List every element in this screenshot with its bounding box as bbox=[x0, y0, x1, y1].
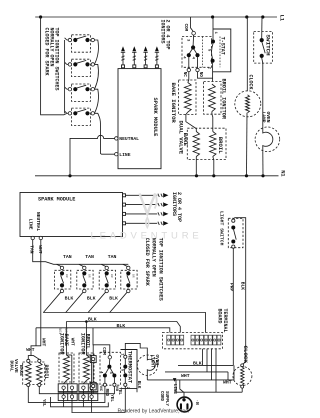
watermark leadventure bbox=[90, 194, 202, 242]
wire PRP from light switch bbox=[232, 248, 234, 365]
wire board drop 1 bbox=[202, 349, 204, 366]
svg-text:LINE: LINE bbox=[119, 152, 130, 158]
svg-text:COM: COM bbox=[183, 24, 187, 32]
clock motor M1 (top) bbox=[235, 91, 261, 117]
label WHT (igniter feed) bbox=[69, 338, 74, 346]
wire L1 to clock bbox=[246, 17, 248, 91]
label OVEN LIGHT bbox=[150, 355, 159, 369]
wire bus C to thermostat COM bbox=[93, 328, 110, 356]
svg-text:N1: N1 bbox=[280, 170, 286, 176]
svg-text:WHT: WHT bbox=[37, 245, 43, 254]
label OVEN LAMP (top) bbox=[261, 112, 271, 123]
svg-text:·N: ·N bbox=[194, 400, 199, 406]
svg-text:TAN: TAN bbox=[85, 254, 94, 260]
igniter electrode output 1 (bottom module) bbox=[123, 193, 169, 197]
wire WHT to valve bbox=[28, 351, 39, 359]
oven light DS2 bbox=[137, 355, 157, 380]
svg-text:WHT: WHT bbox=[223, 380, 232, 386]
svg-text:L1: L1 bbox=[278, 15, 284, 21]
terminal board TB1 bbox=[163, 333, 223, 349]
wire L1 rail bbox=[35, 16, 277, 18]
svg-text:BLK: BLK bbox=[117, 323, 126, 329]
top ignition switch S5 (bottom) bbox=[55, 254, 72, 293]
svg-text:BROIL: BROIL bbox=[43, 365, 49, 380]
oven switch SW1 (top) bbox=[254, 32, 273, 64]
svg-text:BLK: BLK bbox=[65, 295, 74, 301]
igniter electrode output 1 (top module) bbox=[121, 46, 125, 68]
wire bake igniter feed bbox=[65, 322, 67, 356]
wire TAN from module bbox=[33, 240, 129, 265]
label BLK wire 3 bbox=[109, 295, 118, 301]
wire broil igniter feed bbox=[85, 320, 88, 355]
contact COM (top t-stat) bbox=[192, 31, 196, 35]
t-stat contact links bbox=[187, 49, 200, 57]
label T-STAT bbox=[220, 37, 226, 55]
svg-text:TOP IGNITION SWITCHES: TOP IGNITION SWITCHES bbox=[157, 238, 163, 301]
wire t-stat chain top to oven light bbox=[125, 343, 147, 355]
top ignition switch S3 bbox=[65, 84, 99, 113]
contact COM (bottom t-stat) bbox=[108, 356, 111, 359]
wire NEUTRAL from N rail bbox=[70, 135, 115, 176]
wire clock to neutral bbox=[241, 388, 243, 392]
thermostat dashed box (bottom) bbox=[100, 352, 121, 385]
label CLOCK (bottom) bbox=[242, 346, 249, 364]
spark module U2 (bottom) bbox=[20, 193, 123, 237]
bake igniter R3 (bottom) bbox=[59, 353, 74, 384]
svg-text:BR: BR bbox=[110, 274, 113, 278]
label BLK wire 2 bbox=[87, 295, 96, 301]
svg-text:T-STAT: T-STAT bbox=[220, 37, 226, 55]
svg-text:NO: NO bbox=[198, 72, 202, 78]
svg-text:CLOSED FOR SPARK: CLOSED FOR SPARK bbox=[44, 28, 50, 76]
junction dots on L1 rail bbox=[39, 15, 264, 18]
oven lamp DS1 (top) bbox=[255, 127, 280, 152]
bake valve coil (top) bbox=[182, 132, 199, 157]
label SUPPLY CORD bbox=[159, 391, 168, 407]
svg-text:LAMP: LAMP bbox=[261, 112, 267, 123]
label BLK (light switch riser) bbox=[240, 282, 246, 291]
top ignition switch S4 bbox=[65, 108, 95, 125]
light switch SW2 bbox=[228, 218, 243, 248]
wire NO to broil igniter bbox=[198, 72, 213, 79]
wire broil valve to N bbox=[213, 157, 214, 176]
t-stat links (bottom) bbox=[103, 368, 117, 377]
contact NC (bottom t-stat) bbox=[98, 377, 106, 391]
top ignition switch S6 (bottom) bbox=[77, 254, 94, 293]
wire bottom loop 1 bbox=[51, 397, 109, 407]
svg-text:BR: BR bbox=[88, 274, 91, 278]
thermostat body box (bottom) bbox=[121, 350, 138, 389]
top ignition switch S7 (bottom) bbox=[99, 254, 116, 293]
label WHT (valve) bbox=[26, 347, 35, 353]
label WHT (lower) bbox=[40, 338, 46, 347]
wire clock bottom run bbox=[176, 380, 242, 392]
svg-text:WHT: WHT bbox=[40, 338, 46, 347]
svg-text:BAKE: BAKE bbox=[182, 133, 189, 147]
label WHT (module wire) bbox=[37, 245, 43, 254]
wire net WHT horizontal bbox=[165, 372, 228, 380]
label BLK (net) bbox=[193, 360, 202, 366]
dual valve box (bottom) bbox=[23, 362, 45, 384]
label DUAL VALVE (bottom) bbox=[9, 359, 19, 373]
label BAKE IGNITOR (top) bbox=[170, 83, 177, 124]
label L1 bbox=[278, 15, 284, 21]
spark module U1 (top) bbox=[118, 69, 161, 169]
svg-text:Rendered by LeadVenture, Inc.: Rendered by LeadVenture, Inc. bbox=[118, 409, 190, 415]
svg-text:BAKE IGNITOR: BAKE IGNITOR bbox=[170, 83, 177, 124]
thermostat T-STAT body box bbox=[213, 29, 231, 72]
svg-text:NEUTRAL: NEUTRAL bbox=[119, 136, 139, 142]
svg-text:LINE: LINE bbox=[28, 219, 34, 230]
svg-text:SPARK MODULE: SPARK MODULE bbox=[152, 98, 158, 138]
svg-text:NC: NC bbox=[98, 386, 102, 391]
igniter electrode output 4 (bottom module) bbox=[123, 221, 169, 225]
t-stat oven contact chain bbox=[211, 17, 215, 82]
wire switch chain to LINE bbox=[95, 113, 115, 154]
bake valve coil (bottom) bbox=[18, 359, 31, 386]
label RED bbox=[104, 389, 108, 397]
wire bus C to terminal board bbox=[36, 328, 170, 333]
contact NO (bottom t-stat) bbox=[113, 377, 118, 391]
wire net BLK horizontal bbox=[178, 364, 233, 366]
t-stat arm from COM bbox=[191, 35, 195, 50]
wire bottom loop 2 bbox=[72, 412, 126, 414]
wire oven lamp to N bbox=[262, 152, 264, 176]
top ignition switch S2 bbox=[65, 59, 99, 88]
svg-text:LIGHT SWITCH: LIGHT SWITCH bbox=[219, 211, 225, 246]
wire oven switch to lamp bbox=[262, 58, 263, 127]
svg-text:YEL: YEL bbox=[117, 387, 121, 395]
label LIGHT SWITCH bbox=[219, 211, 225, 246]
igniter electrode output 3 (top module) bbox=[143, 46, 147, 68]
t-stat arm (bottom) bbox=[107, 359, 111, 369]
label top ignition switches text block (bottom) bbox=[144, 238, 163, 301]
label WHT (clock run) bbox=[223, 380, 232, 386]
label CLOCK (top) bbox=[248, 75, 254, 90]
label TAN (module wire) bbox=[29, 245, 35, 254]
igniter electrode output 4 (top module) bbox=[155, 46, 159, 68]
svg-text:BLK: BLK bbox=[136, 381, 140, 389]
top ignition switch S8 (bottom) bbox=[121, 264, 137, 292]
label LINE/NEUTRAL (bottom module) bbox=[28, 212, 41, 232]
svg-text:BR: BR bbox=[65, 274, 68, 278]
svg-text:BOARD: BOARD bbox=[217, 309, 223, 324]
svg-text:BR: BR bbox=[132, 274, 135, 278]
svg-text:IGNITORS: IGNITORS bbox=[160, 20, 166, 44]
wire WHT neutral run bbox=[31, 240, 41, 352]
label SPARK MODULE (top) bbox=[152, 98, 158, 138]
svg-text:BROIL IGNITOR: BROIL IGNITOR bbox=[221, 79, 227, 120]
wire board drop 3 bbox=[211, 349, 213, 380]
top ignition switch S1 bbox=[65, 35, 99, 64]
dual valve box (top) bbox=[187, 128, 226, 159]
label BLK (t-stat drop) bbox=[136, 381, 140, 389]
wire BLK from S7 bbox=[88, 292, 105, 312]
label DUAL VALVE (top) bbox=[177, 121, 184, 155]
wire switch left chain bbox=[64, 40, 66, 113]
credit line bbox=[118, 409, 190, 415]
wire BLK from S6 bbox=[66, 292, 83, 312]
svg-text:WHT: WHT bbox=[26, 347, 35, 353]
label BAKE IGNITOR (bottom) bbox=[58, 333, 69, 356]
label BLK bus C bbox=[117, 323, 126, 329]
wire BLK from S5 bbox=[43, 292, 60, 312]
svg-text:LIGHT: LIGHT bbox=[150, 355, 155, 369]
igniter connector blocks bbox=[58, 384, 98, 401]
wire BLK bus A bbox=[43, 313, 205, 333]
svg-text:LEADVENTURE: LEADVENTURE bbox=[90, 231, 202, 242]
thermostat dashed contact box bbox=[182, 37, 212, 68]
svg-text:TAN: TAN bbox=[63, 254, 72, 260]
contact NO (top t-stat) bbox=[196, 57, 202, 77]
svg-text:CLOSED FOR SPARK: CLOSED FOR SPARK bbox=[144, 238, 150, 286]
bake igniter R1 (top) bbox=[179, 80, 197, 132]
label BROIL IGNITOR (top) bbox=[221, 79, 227, 120]
label YEL (NO wire) bbox=[109, 394, 113, 402]
label SPARK MODULE (bottom) bbox=[38, 197, 75, 203]
wire t-stat edge drop bbox=[136, 388, 138, 392]
wire switch bus left bbox=[41, 17, 67, 115]
svg-text:BAKE: BAKE bbox=[18, 365, 24, 376]
svg-text:BAKE: BAKE bbox=[63, 334, 69, 346]
wire L1 to oven switch bbox=[261, 17, 263, 38]
label TERMINAL BOARD bbox=[217, 309, 228, 333]
igniter electrode output 2 (top module) bbox=[132, 46, 136, 68]
wire bake valve to N bbox=[195, 157, 197, 176]
igniter electrode output 3 (bottom module) bbox=[123, 212, 169, 216]
label wire tags bbox=[58, 328, 68, 334]
label top ignition switches text block bbox=[44, 28, 60, 91]
svg-text:NC: NC bbox=[182, 72, 186, 78]
label 2 OR 4 TOP IGNITORS (top) bbox=[160, 20, 171, 50]
svg-text:BLK: BLK bbox=[240, 282, 246, 291]
wire bus C left drop bbox=[35, 328, 37, 346]
svg-text:YEL: YEL bbox=[41, 399, 45, 407]
svg-text:BROIL: BROIL bbox=[84, 334, 90, 350]
wire light switch to BLK riser bbox=[233, 218, 245, 364]
wire board drop 2 bbox=[206, 349, 208, 372]
wire connector exits bbox=[64, 398, 92, 412]
label N (plug) bbox=[194, 400, 199, 406]
wire BLK from S8 bbox=[110, 292, 127, 312]
label BLK bus A bbox=[88, 316, 97, 322]
broil valve coil (top) bbox=[210, 132, 224, 157]
wire LINE horizontal bbox=[147, 365, 234, 380]
label YEL (chain wire) bbox=[117, 387, 121, 395]
broil igniter R4 (bottom) bbox=[79, 353, 94, 384]
label N1 bbox=[280, 170, 286, 176]
wire board drop 4 bbox=[215, 349, 217, 392]
t-stat pin digits (top) bbox=[182, 32, 217, 70]
svg-text:THERMOSTAT: THERMOSTAT bbox=[127, 351, 133, 384]
igniter electrode output 2 (bottom module) bbox=[123, 202, 169, 206]
wire clock to N bbox=[246, 113, 249, 176]
svg-text:CLOCK: CLOCK bbox=[248, 75, 254, 90]
wire L1 to COM bbox=[191, 17, 194, 31]
svg-text:CLOCK: CLOCK bbox=[242, 346, 249, 364]
terminal NEUTRAL (top module) bbox=[115, 136, 140, 142]
svg-text:IGNITORS: IGNITORS bbox=[171, 192, 177, 216]
supply cord plug P1 bbox=[177, 396, 192, 412]
svg-text:YEL: YEL bbox=[109, 394, 113, 402]
clock motor M2 (bottom) bbox=[233, 364, 252, 388]
svg-text:BROIL: BROIL bbox=[217, 137, 224, 154]
label COM (bottom t-stat) bbox=[101, 347, 105, 355]
svg-text:SUPPLY: SUPPLY bbox=[164, 391, 168, 407]
wire N rail bbox=[35, 175, 279, 177]
wire RED NC to bake valve bbox=[28, 386, 105, 402]
thermostat connectors bbox=[90, 345, 96, 394]
junction dots on N rail bbox=[68, 174, 264, 177]
svg-text:CORD: CORD bbox=[159, 391, 163, 402]
label COM (top t-stat) bbox=[183, 24, 187, 32]
label 2 OR 4 TOP IGNITORS (bottom) bbox=[171, 192, 182, 222]
terminal LINE (top module) bbox=[115, 152, 131, 158]
svg-text:5: 5 bbox=[120, 369, 124, 371]
svg-text:1: 1 bbox=[120, 353, 124, 355]
svg-text:BLK: BLK bbox=[87, 295, 96, 301]
wire to plug bbox=[180, 380, 184, 396]
label BROIL IGNITOR (bottom) bbox=[80, 333, 91, 356]
broil valve coil (bottom) bbox=[37, 359, 49, 386]
label THERMOSTAT bbox=[127, 351, 133, 384]
svg-text:NEUTRAL: NEUTRAL bbox=[35, 212, 41, 232]
svg-text:SWITCH: SWITCH bbox=[264, 35, 271, 57]
contact NC (top t-stat) bbox=[182, 57, 191, 77]
wire NC to bake igniter bbox=[188, 72, 189, 83]
svg-text:BLK: BLK bbox=[193, 360, 202, 366]
junction supply line bbox=[173, 378, 177, 382]
svg-text:LINE: LINE bbox=[172, 384, 176, 395]
terminal LINE (bottom module) bbox=[31, 236, 34, 239]
svg-text:PRP: PRP bbox=[229, 283, 235, 292]
svg-text:TAN: TAN bbox=[108, 254, 117, 260]
label YEL (left) bbox=[41, 399, 45, 407]
label LINE bbox=[172, 384, 176, 395]
terminal NEUTRAL (bottom module) bbox=[39, 236, 42, 239]
wire t-stat chain 2 down bbox=[124, 386, 126, 412]
wire bus B to terminal board bbox=[66, 322, 180, 333]
svg-text:WHT: WHT bbox=[181, 373, 190, 379]
svg-text:RED: RED bbox=[104, 389, 108, 397]
svg-text:BLK: BLK bbox=[109, 295, 118, 301]
label PRP bbox=[229, 283, 235, 292]
wire YEL NO to broil valve bbox=[39, 386, 114, 393]
t-stat pin digits (bottom) bbox=[99, 353, 129, 389]
svg-text:SPARK MODULE: SPARK MODULE bbox=[38, 197, 75, 203]
label BLK wire 1 bbox=[65, 295, 74, 301]
broil igniter R2 (top) bbox=[204, 82, 221, 132]
label WHT (net) bbox=[181, 373, 190, 379]
t-stat oven chain (bottom) bbox=[123, 355, 127, 386]
svg-text:COM: COM bbox=[101, 347, 105, 355]
svg-text:NORMALLY OPEN: NORMALLY OPEN bbox=[151, 238, 157, 277]
